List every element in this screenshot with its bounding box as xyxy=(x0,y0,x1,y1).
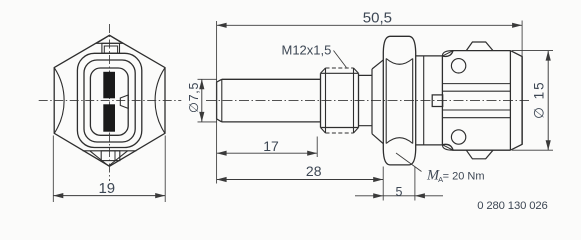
svg-text:M12x1,5: M12x1,5 xyxy=(282,42,332,57)
probe tip outline xyxy=(217,79,321,122)
latch tab top outer xyxy=(102,43,120,53)
chamfer arc left xyxy=(54,68,64,133)
dim 19 line xyxy=(53,193,165,198)
thread chamfer verticals xyxy=(326,68,354,133)
center line vertical (left view) xyxy=(109,24,111,181)
lug bottom xyxy=(466,150,493,159)
svg-text:19: 19 xyxy=(98,180,115,197)
ext line probe tip xyxy=(216,21,218,184)
nut facet line right xyxy=(412,59,414,144)
dim 19 extension left xyxy=(52,136,54,203)
label MA = 20 Nm with leader xyxy=(396,153,422,172)
svg-text:17: 17 xyxy=(263,138,279,154)
clip hole bottom xyxy=(451,130,465,144)
chamfer line bottom xyxy=(83,150,137,152)
ext line 17 right xyxy=(316,137,318,158)
corner bead top-left crease xyxy=(442,51,453,57)
ext lines dia7.5 xyxy=(198,79,217,122)
ext line 28/5 nut left xyxy=(382,167,384,201)
terminal blade top xyxy=(103,72,115,99)
thread M12 left face xyxy=(320,73,322,127)
corner bead top-left arc xyxy=(442,51,453,57)
chamfer arc right xyxy=(155,68,165,133)
latch tab bottom inner line xyxy=(114,151,116,161)
nut chamfer arc top xyxy=(386,59,413,65)
thread crest dashed top xyxy=(326,67,354,69)
key notch xyxy=(120,95,128,108)
latch tab bottom outer xyxy=(101,151,120,161)
probe tip chamfer line xyxy=(221,79,223,122)
latch tab top inner xyxy=(104,46,117,53)
plug key square xyxy=(432,95,443,107)
svg-text:28: 28 xyxy=(306,163,322,179)
lug top xyxy=(466,42,493,51)
washer face xyxy=(371,69,373,134)
rear cap xyxy=(510,51,522,151)
ext line 5 nut right xyxy=(414,167,416,201)
thread root lines xyxy=(321,73,359,127)
svg-text:0 280 130 026: 0 280 130 026 xyxy=(477,200,547,212)
ext lines dia15 xyxy=(512,51,553,151)
clip hole top xyxy=(451,59,465,73)
thread chamfer corners xyxy=(321,68,359,133)
cone to nut xyxy=(372,60,383,144)
collar seam xyxy=(423,56,425,145)
center line horizontal (left view) xyxy=(39,99,182,101)
svg-text:∅ 15: ∅ 15 xyxy=(531,80,546,119)
corner bead bottom-left arc xyxy=(442,145,453,151)
chamfer cone bottom vertex xyxy=(90,151,128,166)
chamfer line top xyxy=(96,42,123,44)
svg-text:MA= 20 Nm: MA= 20 Nm xyxy=(426,168,485,184)
thread right face xyxy=(358,73,360,127)
svg-text:5: 5 xyxy=(396,185,403,199)
chamfer cone top vertex xyxy=(97,35,123,43)
connector shroud outer wall xyxy=(84,60,135,142)
dim 28 xyxy=(217,177,384,182)
svg-text:50,5: 50,5 xyxy=(363,9,392,26)
dim 5 (outside arrows) xyxy=(355,193,443,198)
dim dia 7,5 xyxy=(199,79,204,122)
svg-text:∅7,5: ∅7,5 xyxy=(187,82,201,113)
dim 17 xyxy=(217,151,318,156)
axis center line xyxy=(206,99,529,101)
thread crest dashed bottom xyxy=(326,132,354,134)
hex body M1 (front view) xyxy=(54,35,165,166)
label M12x1,5 with leader xyxy=(334,51,347,68)
dim dia 15 xyxy=(546,51,551,151)
ext line 50,5 right xyxy=(521,21,523,57)
terminal blade bottom xyxy=(103,104,115,131)
corner bead bottom-left crease xyxy=(442,145,453,151)
dim 50,5 xyxy=(217,23,522,28)
body rear seam xyxy=(509,51,511,151)
connector flange outer xyxy=(77,53,141,147)
neck xyxy=(359,75,373,125)
connector shroud inner wall xyxy=(90,68,128,135)
terminal slot lines xyxy=(443,84,511,118)
cap chamfer edges xyxy=(521,57,523,145)
connector body outline xyxy=(442,51,510,151)
dim 19 extension right xyxy=(164,136,166,203)
hex nut SW19 outline xyxy=(383,36,415,165)
nut facet line left xyxy=(385,59,387,144)
nut chamfer arc bottom xyxy=(386,138,413,144)
collar between nut and body xyxy=(416,56,443,145)
